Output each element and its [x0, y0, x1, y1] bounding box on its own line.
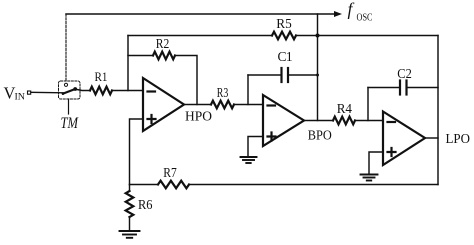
wire C1 left riser [247, 75, 249, 105]
resistor R3 [211, 101, 234, 109]
wire node A vertical (inverting node riser) [127, 36, 129, 91]
svg-text:R4: R4 [337, 102, 352, 117]
op-amp U1 [143, 78, 184, 131]
resistor R6 [129, 185, 131, 192]
wire R1 to op-amp U1 minus input [112, 90, 143, 92]
wire C1 right to BPO riser [288, 74, 318, 76]
wire U2 plus input to ground [248, 137, 263, 158]
svg-text:R7: R7 [163, 166, 177, 181]
wire R3 to op-amp U2 minus input [234, 104, 263, 106]
wire R2 to HPO node [175, 56, 197, 105]
wire R5 feedback run [128, 35, 272, 37]
wire R2 feedback run [128, 55, 153, 57]
wire BPO output to R4 [304, 120, 333, 122]
wire C2 right to right rail [407, 87, 439, 89]
wire switch to R1 [77, 90, 90, 91]
svg-text:OSC: OSC [357, 13, 373, 24]
wire BPO riser to f_OSC line [317, 14, 319, 121]
svg-text:R3: R3 [217, 86, 229, 101]
resistor R4 [333, 117, 355, 125]
op-amp U3 [383, 112, 425, 166]
op-amp U2 [263, 95, 304, 146]
wire bottom rail left segment [130, 184, 159, 186]
node junction dot at R5 line and BPO riser [316, 34, 320, 38]
node LPO label [446, 132, 471, 147]
capacitor C1 [282, 68, 289, 82]
svg-text:R2: R2 [156, 36, 170, 51]
svg-text:LPO: LPO [446, 132, 471, 147]
node input terminal [28, 91, 31, 94]
svg-text:R5: R5 [276, 16, 292, 31]
resistor R1 [90, 87, 112, 95]
svg-text:R1: R1 [95, 69, 108, 84]
wire C2 left riser [367, 88, 369, 121]
ground below R6 [120, 231, 140, 238]
ground below U3 [361, 175, 378, 181]
resistor R5 [272, 32, 296, 40]
wire C2 top run left [368, 87, 400, 89]
wire right rail vertical [437, 36, 439, 185]
wire R6 to ground [129, 217, 131, 231]
wire R5 to right-side rail [296, 35, 438, 37]
wire C1 top run left [248, 74, 282, 76]
wire left vertical from top line down to TM switch [65, 14, 67, 81]
resistor R2 [153, 52, 175, 60]
node V_IN label [4, 84, 26, 103]
wire bottom rail to right rail [189, 184, 438, 186]
svg-text:TM: TM [61, 115, 79, 132]
wire U3 plus input to ground [369, 152, 383, 175]
svg-text:IN: IN [15, 93, 26, 103]
node HPO label [185, 110, 212, 125]
wire U3 output to right rail [425, 137, 438, 139]
svg-text:R6: R6 [138, 198, 153, 213]
arrow to f_OSC [334, 11, 342, 17]
ground below U2 [241, 157, 257, 163]
svg-text:f: f [348, 0, 355, 19]
svg-text:C1: C1 [278, 49, 293, 64]
capacitor C2 [400, 81, 407, 95]
wire U1 plus input down to bottom rail [130, 119, 144, 185]
svg-text:HPO: HPO [185, 110, 212, 125]
node f_OSC label [348, 0, 373, 24]
switch TM (dashed box) [59, 81, 81, 114]
wire HPO output to R3 [184, 104, 211, 106]
wire R4 to op-amp U3 minus input [355, 120, 383, 122]
wire V_IN to switch [31, 91, 63, 94]
wire top f_OSC line [66, 13, 334, 15]
svg-text:C2: C2 [397, 67, 412, 82]
svg-text:BPO: BPO [308, 129, 332, 144]
node TM label [61, 115, 79, 132]
resistor R7 [158, 181, 189, 189]
node junction dot C1 right [316, 74, 319, 77]
node BPO label [308, 129, 332, 144]
